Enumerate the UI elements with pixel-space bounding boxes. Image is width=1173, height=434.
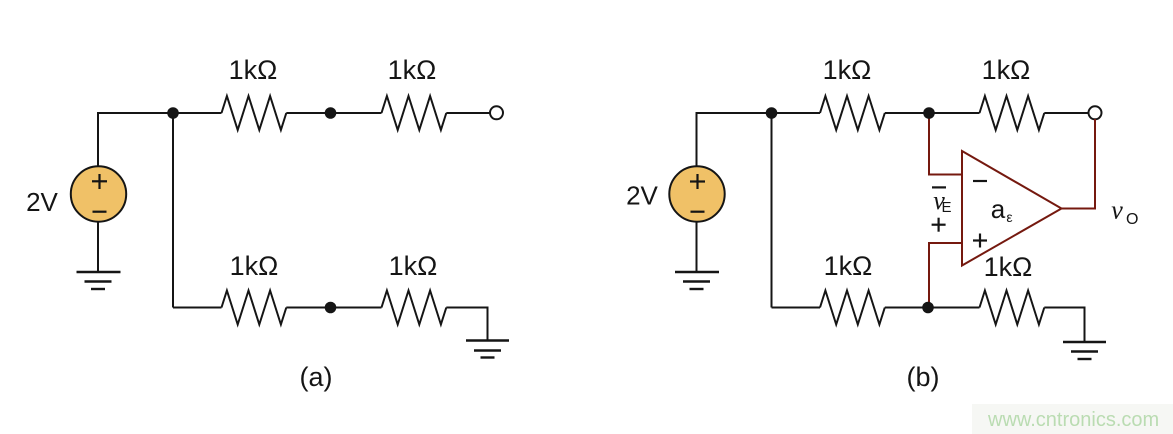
wire: R4b to ground (b) <box>1044 308 1084 343</box>
V2 plus sign <box>690 174 705 189</box>
wire: R3a to R4a <box>286 307 381 309</box>
svg-text:1kΩ: 1kΩ <box>389 251 438 281</box>
op-amp inverting pin minus sign <box>973 180 987 182</box>
node A1 junction dot <box>167 107 179 119</box>
wire: node A1 down to bottom branch <box>172 113 174 308</box>
node A3 junction dot <box>325 302 337 314</box>
open terminal (b) <box>1089 106 1102 119</box>
wire: bottom branch to R3a <box>173 307 222 309</box>
wire: R1a to R2a <box>286 112 381 114</box>
svg-text:1kΩ: 1kΩ <box>230 251 279 281</box>
ground symbol under source (a) <box>77 272 121 289</box>
svg-text:www.cntronics.com: www.cntronics.com <box>987 409 1159 431</box>
svg-text:1kΩ: 1kΩ <box>982 55 1031 85</box>
voltage source V1 2V <box>71 166 126 221</box>
resistor R1b 1kOhm body <box>820 96 885 130</box>
ground symbol right (a) <box>466 341 509 358</box>
V1 plus sign <box>92 174 107 189</box>
resistor R3a 1kOhm body <box>222 291 287 325</box>
svg-text:(b): (b) <box>907 362 940 392</box>
node B1 junction dot <box>766 107 778 119</box>
svg-text:a: a <box>991 194 1006 224</box>
node A2 junction dot <box>325 107 337 119</box>
svg-text:O: O <box>1126 211 1138 228</box>
svg-text:2V: 2V <box>626 181 658 211</box>
wire: R2a to output terminal <box>446 112 490 114</box>
watermark www.cntronics.com <box>972 404 1173 434</box>
node B3 junction dot <box>922 302 934 314</box>
wire: source top to node B1 <box>697 113 821 167</box>
maroon wire: op-amp output to terminal <box>1062 119 1096 209</box>
svg-text:E: E <box>942 199 952 216</box>
resistor R4a 1kOhm body <box>382 291 447 325</box>
resistor R1a 1kOhm body <box>222 96 287 130</box>
wire: R4a to ground (a) <box>446 308 487 341</box>
resistor R4b 1kOhm body <box>980 291 1045 325</box>
wire: source V2 bottom to ground <box>696 222 698 273</box>
wire: source top to node A1 <box>98 113 222 167</box>
maroon wire: node B2 to op-amp inverting input <box>929 113 962 175</box>
ground symbol right (b) <box>1063 342 1106 359</box>
resistor R3b 1kOhm body <box>820 291 885 325</box>
label vE minus polarity <box>932 186 946 188</box>
svg-text:1kΩ: 1kΩ <box>229 55 278 85</box>
V1 minus sign <box>93 211 107 213</box>
svg-text:2V: 2V <box>26 187 58 217</box>
resistor R2b 1kOhm body <box>980 96 1045 130</box>
svg-text:(a): (a) <box>300 362 333 392</box>
open terminal (a) <box>490 106 503 119</box>
ground symbol under source (b) <box>675 272 719 289</box>
wire: source bottom to ground <box>97 222 99 273</box>
op-amp U1 triangle <box>962 151 1062 266</box>
label vE plus polarity <box>932 218 946 232</box>
wire: node B1 down to bottom branch <box>771 113 773 308</box>
svg-text:1kΩ: 1kΩ <box>824 251 873 281</box>
svg-text:v: v <box>1111 196 1123 225</box>
svg-text:1kΩ: 1kΩ <box>984 252 1033 282</box>
voltage source V2 2V <box>669 166 724 221</box>
node B2 junction dot <box>923 107 935 119</box>
op-amp non-inverting pin plus sign <box>973 234 987 248</box>
wire: R2b to output terminal <box>1044 112 1089 114</box>
wire: R3b to R4b <box>885 307 980 309</box>
maroon wire: node B3 to op-amp non-inverting input <box>929 243 962 308</box>
svg-text:1kΩ: 1kΩ <box>823 55 872 85</box>
V2 minus sign <box>691 211 705 213</box>
svg-text:1kΩ: 1kΩ <box>388 55 437 85</box>
svg-text:ε: ε <box>1006 209 1012 225</box>
resistor R2a 1kOhm body <box>382 96 447 130</box>
wire: bottom branch to R3b <box>772 307 821 309</box>
wire: R1b to R2b <box>885 112 980 114</box>
